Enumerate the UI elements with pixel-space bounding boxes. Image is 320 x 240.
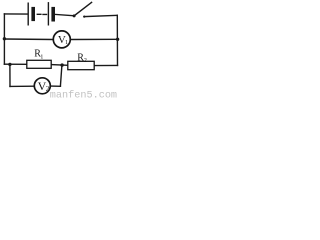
node B junction dot (right rail / V1 wire)	[116, 38, 119, 41]
wire V2 branch left vertical	[9, 64, 11, 86]
wire battery to switch	[55, 14, 74, 15]
wire middle row left (node A to V1)	[4, 38, 52, 41]
wire R1 to node C	[51, 64, 68, 67]
wire middle row right (V1 to node B)	[71, 38, 117, 40]
wire V2 branch right vertical to node C	[60, 65, 62, 86]
wire R2 to right rail	[94, 64, 117, 66]
battery cell 1 short thick plate	[31, 9, 35, 20]
switch pivot contact	[73, 14, 76, 17]
voltmeter U V1 circle	[53, 31, 70, 48]
wire V2 branch bottom left	[10, 85, 34, 87]
resistor R1 body	[27, 60, 51, 68]
voltmeter U V2 circle	[34, 78, 50, 94]
wire V2 branch bottom right	[51, 85, 60, 87]
svg-text:1: 1	[40, 53, 43, 60]
node A junction dot (left rail / V1 wire)	[3, 37, 6, 40]
wire left rail vertical	[3, 14, 5, 64]
wire R-row left	[4, 63, 27, 65]
node C junction dot (between R1 and R2 / V2 branch)	[60, 63, 63, 66]
battery cell 2 short thick plate	[51, 9, 55, 20]
battery middle dashed link	[37, 13, 46, 15]
node D junction dot (left rail / V2 branch)	[8, 63, 11, 66]
wire switch fixed contact to top-right corner	[84, 15, 117, 16]
resistor R2 body	[68, 61, 94, 69]
svg-text:manfen5.com: manfen5.com	[50, 90, 117, 99]
svg-text:2: 2	[46, 85, 50, 93]
battery cell 2 long plate	[47, 3, 49, 25]
wire right rail vertical	[116, 15, 118, 65]
svg-text:1: 1	[65, 39, 68, 46]
switch fixed contact	[83, 16, 85, 18]
svg-text:2: 2	[84, 57, 87, 64]
switch blade	[74, 2, 91, 15]
wire top-left horizontal	[4, 13, 27, 15]
battery cell 1 long plate	[27, 3, 29, 25]
